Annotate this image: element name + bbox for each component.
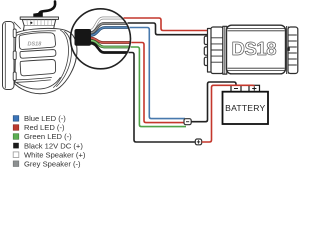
clamp hook [39,2,55,16]
clamp foot [33,12,43,17]
panel C lower [20,59,55,75]
legend grey swatch [13,161,19,167]
legend white swatch [13,152,19,158]
amp left step [223,26,227,74]
red LED wire (magnified) [90,38,132,43]
svg-text:Black 12V DC (+): Black 12V DC (+) [24,141,83,150]
wire black speaker- to amp [128,23,208,35]
amp body top lines [228,29,285,31]
grille contour lines [54,30,69,87]
amp right step [287,26,289,74]
amp main body [227,25,286,74]
LED minus bullet connector [184,119,191,125]
svg-text:DS18: DS18 [232,38,277,59]
amp left end cap [211,27,223,74]
zoom circle outline [71,9,131,69]
amp terminal lugs [204,36,209,44]
grey speaker- wire (magnified) [90,24,130,34]
svg-text:BATTERY: BATTERY [225,103,265,113]
neck [23,26,54,30]
wire red speaker+ to amp [124,18,208,31]
amp left fins [212,38,223,62]
speaker body [15,28,77,93]
black 12V wire (magnified) [90,43,129,53]
wire blue LED down [130,28,186,119]
bracket hatch [27,20,52,26]
svg-text:Red LED (-): Red LED (-) [24,123,65,132]
harness connector block [75,29,92,46]
svg-text:Grey Speaker (-): Grey Speaker (-) [24,159,81,168]
wire green LED down [131,47,186,127]
svg-text:Green LED (-): Green LED (-) [24,132,72,141]
svg-text:DS18: DS18 [28,42,43,48]
svg-text:White Speaker (+): White Speaker (+) [24,150,86,159]
legend red swatch [13,125,19,131]
body top inner line [17,31,56,36]
bracket trapezoid [22,20,55,26]
wire black to battery minus [191,82,236,122]
blue LED wire (magnified) [90,28,131,36]
wire red to battery plus [202,85,254,142]
amp right end cap [288,27,298,74]
rear column [3,22,15,90]
amp right fins [289,35,297,65]
battery box [223,92,269,124]
top back edge [14,22,21,29]
bracket bar [20,17,58,19]
battery negative terminal [231,85,241,91]
battery positive terminal [249,85,260,91]
amp body bottom lines [228,68,285,70]
svg-text:Blue LED (-): Blue LED (-) [24,114,66,123]
panel B strip [20,50,56,59]
legend blue swatch [13,116,19,122]
green LED wire (magnified) [90,41,131,48]
panel A top [19,33,55,50]
wire red LED down [131,43,185,123]
bottom rim inner line [15,78,60,90]
wire black 12V bottom route [129,53,196,143]
lower band [17,77,52,82]
bracket pin [30,22,32,24]
white speaker+ wire (magnified) [90,18,126,31]
legend green swatch [13,134,19,140]
amp right notch [287,48,290,51]
legend black swatch [13,143,19,149]
column tabs [13,29,16,38]
amp left plate [208,29,213,73]
12V plus bullet connector [195,139,201,145]
